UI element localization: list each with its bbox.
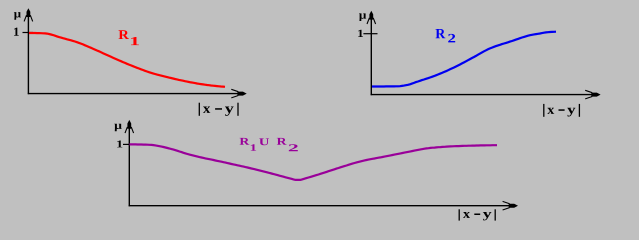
label |x-y| plot1 xyxy=(198,103,200,116)
tick mark 1 plot3 xyxy=(123,143,136,145)
x-axis plot3 xyxy=(129,205,514,207)
x-axis plot2 xyxy=(371,94,597,96)
curve R2 (blue, increasing sigmoid) xyxy=(372,32,556,87)
tick mark 1 plot1 xyxy=(23,32,34,34)
label mu plot3 xyxy=(114,124,121,131)
curve R1 U R2 (purple, max of R1 and R2) xyxy=(130,144,498,180)
x-axis arrow plot3 xyxy=(503,201,510,210)
y-axis plot1 xyxy=(27,12,29,95)
x-axis arrow plot2 xyxy=(585,90,592,99)
label 1 plot1 xyxy=(14,28,19,36)
x-axis plot1 xyxy=(28,93,243,95)
label |x-y| plot3 xyxy=(458,209,460,220)
label 1 plot3 xyxy=(117,141,122,148)
label R2 (blue) xyxy=(435,29,445,38)
x-axis arrow plot1 xyxy=(231,89,238,98)
y-axis plot2 xyxy=(370,14,372,95)
label R1 U R2 (purple) xyxy=(240,138,250,145)
label mu plot1 xyxy=(14,12,21,20)
label R1 (red) xyxy=(119,30,129,39)
y-axis arrow plot3 xyxy=(125,127,134,133)
y-axis arrow plot2 xyxy=(367,18,376,24)
y-axis plot3 xyxy=(128,123,130,206)
label 1 plot2 xyxy=(358,30,363,37)
label mu plot2 xyxy=(359,13,366,21)
curve R1 (red, decreasing sigmoid) xyxy=(29,33,225,87)
y-axis arrow plot1 xyxy=(24,15,33,21)
tick mark 1 plot2 xyxy=(363,33,377,35)
label |x-y| plot2 xyxy=(543,104,545,117)
